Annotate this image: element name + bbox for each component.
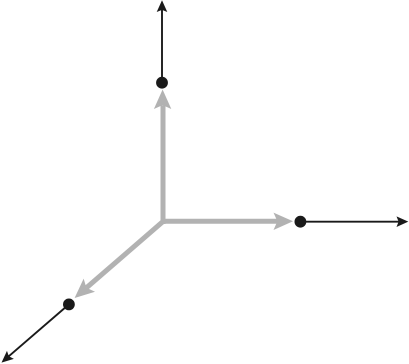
gray axis shaft e2 (vertical, up from origin) [161,105,166,224]
black vector arrowhead (tip pointing down-left, bottom-left corner) [0,351,14,364]
gray axis arrowhead e2 (tip pointing up) [154,90,171,110]
black vector arrowhead (tip pointing right, right edge) [397,216,409,227]
black vector shaft (rightward, from dot on horizontal axis) [300,221,398,223]
gray axis shaft e1 (horizontal, right from origin) [161,219,278,224]
black vector arrowhead (tip pointing up, top edge) [157,0,168,12]
node dot on diagonal axis [63,299,75,311]
black vector shaft (down-left, from dot on diagonal axis) [8,304,69,356]
gray axis shaft e3 (diagonal, down-left from origin) [86,220,164,288]
gray axis arrowhead e1 (tip pointing right) [274,213,294,230]
node dot on vertical axis [156,77,168,89]
gray axis arrowhead e3 (tip pointing down-left) [69,279,95,305]
black vector shaft (upward, from dot on vertical axis) [161,10,163,84]
node dot on horizontal axis [295,216,307,228]
